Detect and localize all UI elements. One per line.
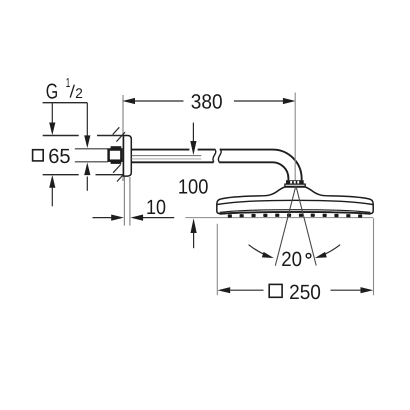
spray angle arc arrow right	[315, 245, 340, 258]
svg-text:250: 250	[289, 281, 321, 304]
union plate behind block	[111, 146, 122, 164]
dimension 65 bottom extension line	[43, 174, 124, 176]
nozzle dots row	[228, 214, 362, 218]
label square-65	[33, 145, 71, 168]
G 1/2 leader arrow down to nipple	[84, 103, 90, 148]
dimension 250 extension lines	[217, 218, 373, 295]
dimension 250 line with arrows	[218, 287, 374, 293]
dimension 65 top arrow (down)	[49, 103, 55, 136]
leader underline for G 1/2	[43, 102, 88, 104]
union block (wall coupling)	[109, 150, 122, 161]
svg-text:1: 1	[66, 75, 71, 90]
head bottom rim heavy line (bowed)	[220, 212, 370, 214]
spray face extension line	[185, 217, 373, 219]
svg-text:10: 10	[146, 196, 166, 219]
wall line	[122, 95, 124, 181]
label square-250	[269, 281, 321, 304]
svg-text:100: 100	[178, 176, 209, 199]
escutcheon flange (side view)	[124, 136, 132, 177]
svg-text:2: 2	[75, 85, 83, 101]
arm inner lines	[132, 155, 202, 157]
shower head body	[217, 187, 373, 214]
svg-text:380: 380	[191, 90, 223, 113]
dimension 100 top arrow (down onto arm axis)	[190, 123, 196, 156]
knurled nut	[286, 180, 304, 184]
G 1/2 arrow up to nipple bottom	[84, 162, 90, 190]
shower arm top line with break gap and bend	[131, 150, 301, 181]
dimension 10 extension lines	[124, 177, 129, 226]
spray angle arc arrow left	[249, 245, 274, 258]
dimension 380 line with arrows	[122, 98, 295, 104]
shower arm bottom line with break gap and bend	[131, 162, 288, 180]
head inner rim line (bowed)	[220, 210, 371, 213]
centerline extension from 380 to head	[294, 93, 296, 189]
dimension 65 bottom arrow (up)	[49, 175, 55, 206]
spray angle lines 20 deg	[275, 186, 316, 266]
supply nipple G1/2 (two lines)	[75, 149, 108, 162]
collar bar under nut	[285, 184, 305, 186]
head cover seam line (bowed)	[217, 200, 373, 204]
wall hatch marks	[113, 127, 126, 181]
svg-text:20: 20	[281, 248, 302, 271]
pipe break symbol	[213, 149, 221, 162]
svg-text:65: 65	[48, 145, 70, 168]
dimension 65 top extension line	[43, 135, 124, 137]
svg-text:G: G	[46, 79, 58, 103]
dimension 100 bottom arrow (up onto spray face)	[191, 218, 197, 248]
label G 1/2	[46, 75, 83, 104]
dimension 10 line with arrows	[93, 215, 175, 221]
